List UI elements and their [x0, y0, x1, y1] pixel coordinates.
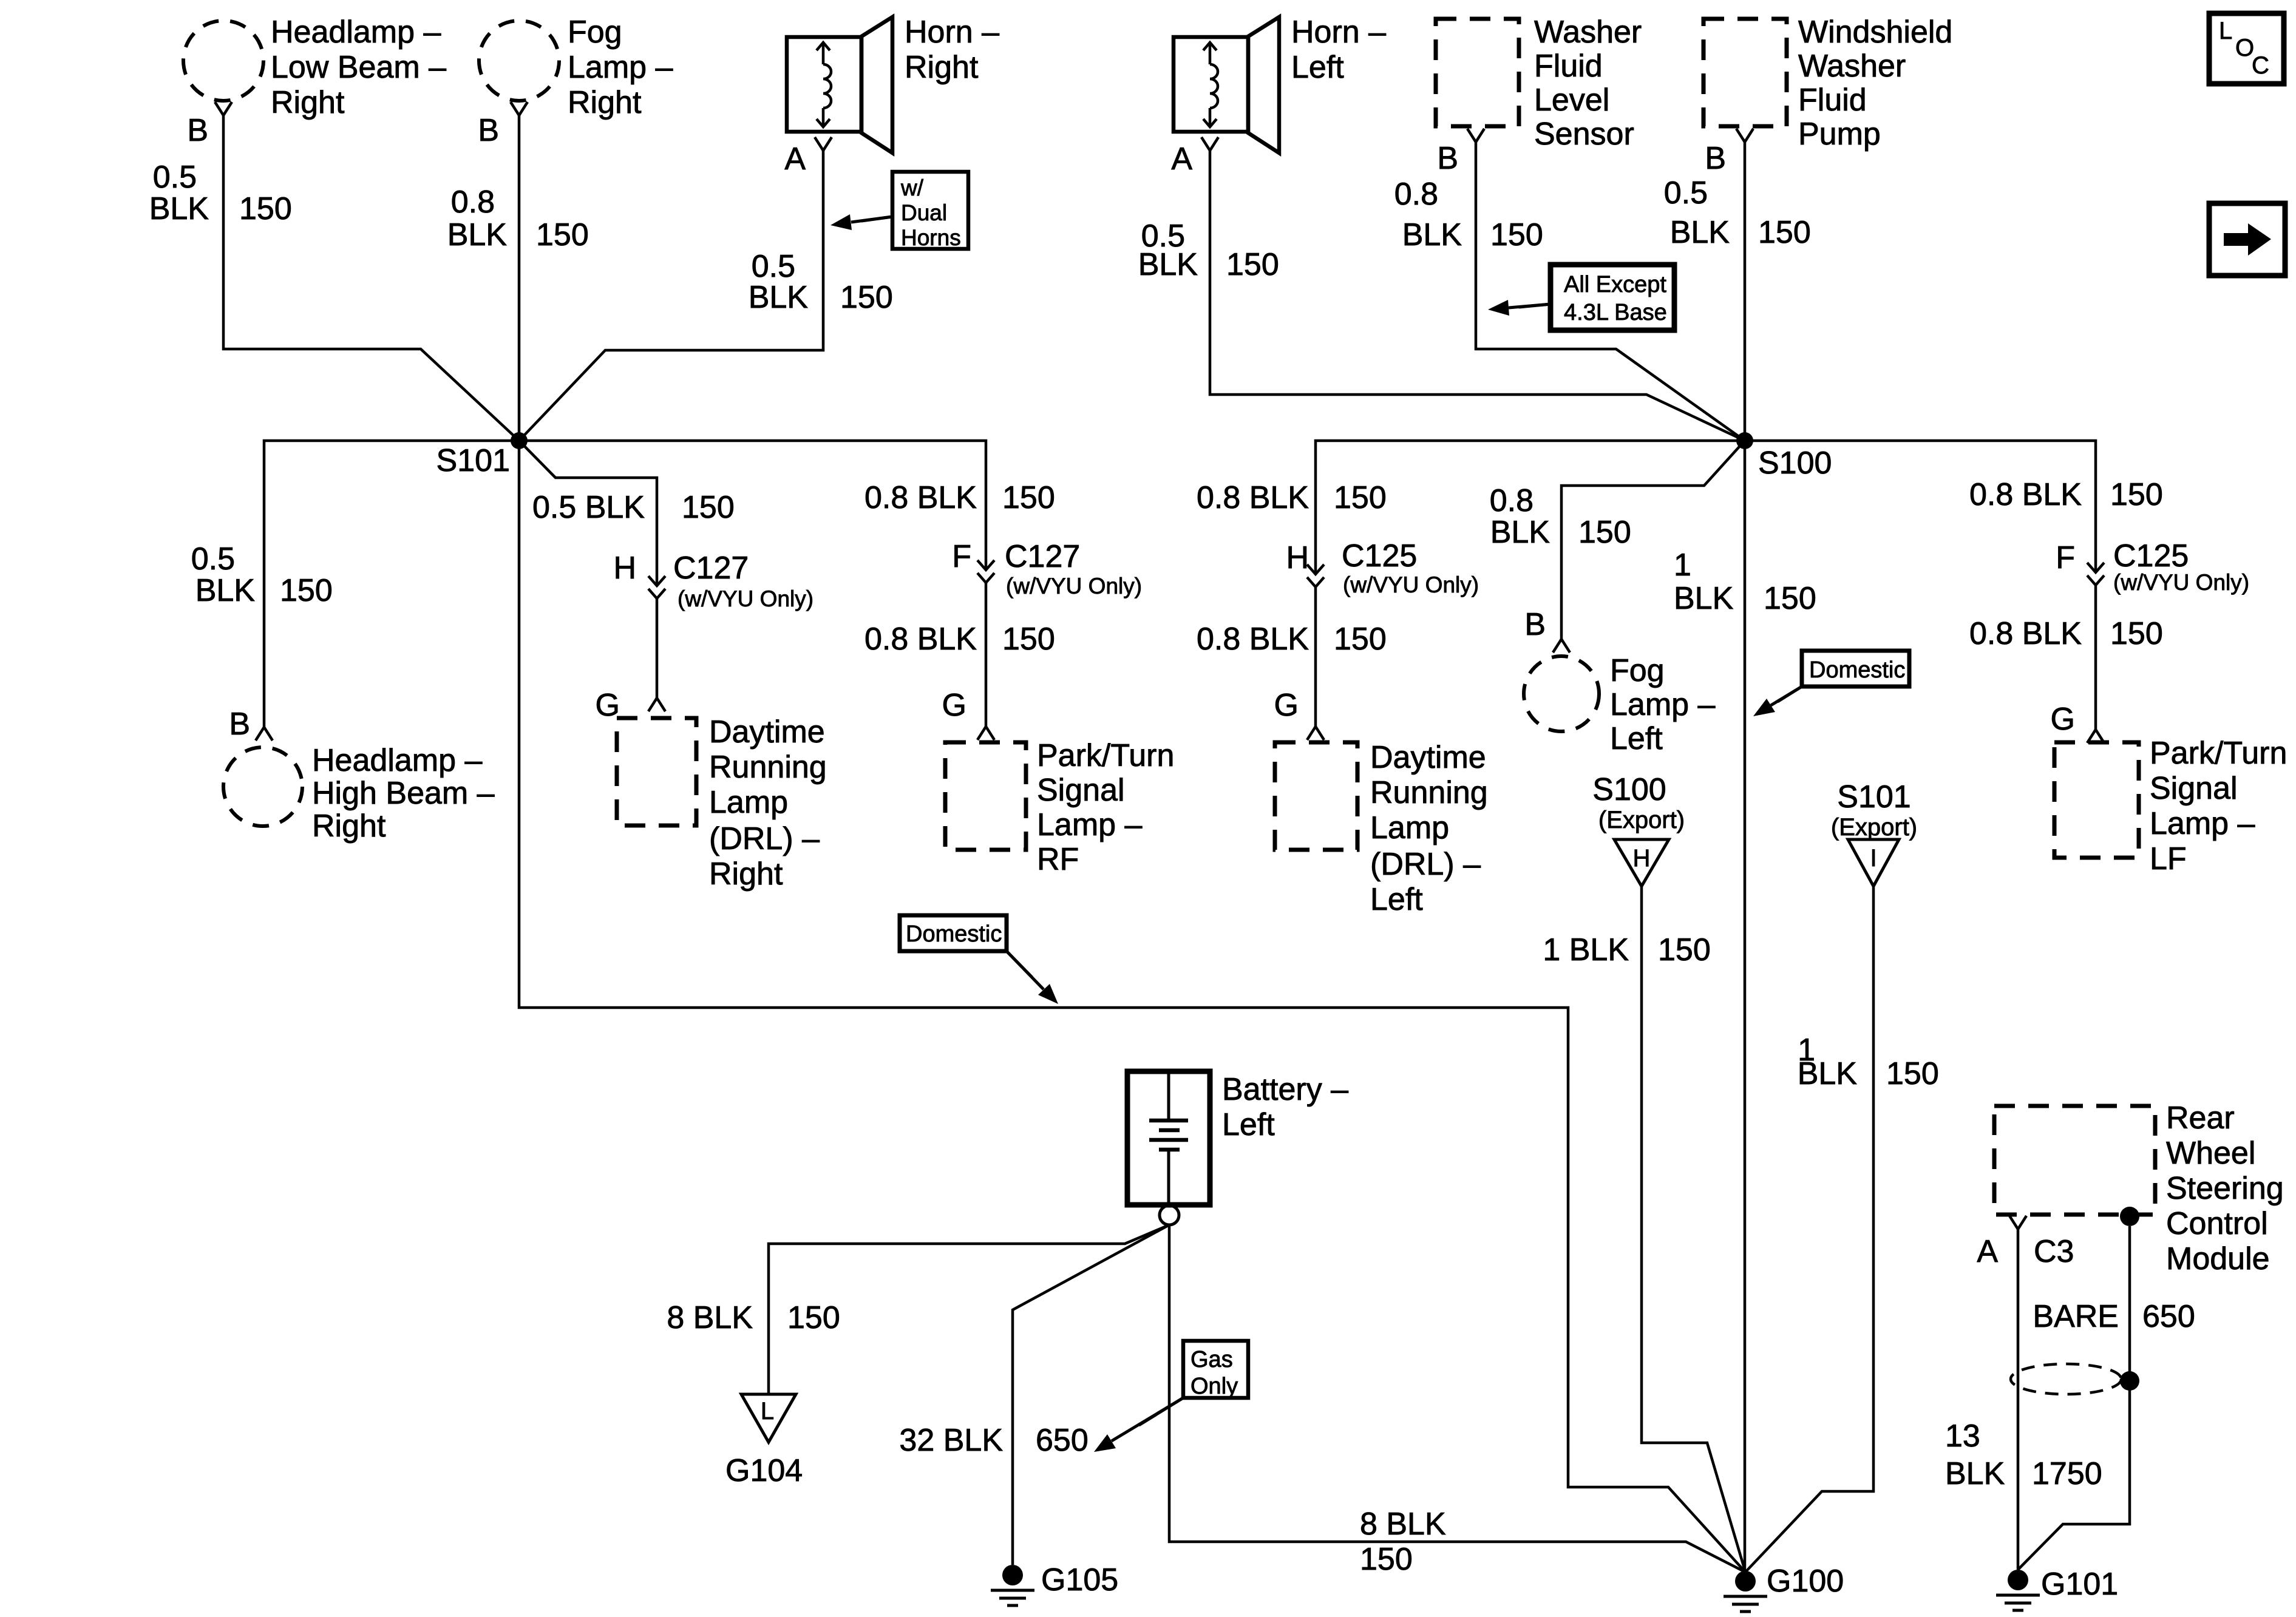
svg-text:S101: S101: [1837, 779, 1911, 815]
svg-text:A: A: [1171, 141, 1192, 177]
label Park/Turn Signal Lamp LF: [2150, 736, 2287, 876]
svg-text:LF: LF: [2150, 841, 2187, 876]
node on drain wire: [2120, 1371, 2139, 1391]
svg-text:Rear: Rear: [2166, 1100, 2235, 1136]
svg-text:Headlamp –: Headlamp –: [312, 743, 482, 778]
svg-text:650: 650: [1036, 1423, 1089, 1458]
wire S100 to fog lamp left: [1561, 441, 1745, 639]
svg-text:(w/VYU Only): (w/VYU Only): [2113, 570, 2249, 595]
svg-text:Control: Control: [2166, 1206, 2268, 1241]
svg-text:Gas: Gas: [1190, 1347, 1233, 1372]
svg-text:Dual: Dual: [901, 200, 947, 225]
pin label B: [478, 113, 499, 148]
fog lamp right lamp: [479, 21, 559, 101]
note (w/VYU Only): [2113, 570, 2249, 595]
pin label G: [596, 688, 620, 723]
svg-text:Right: Right: [271, 85, 345, 120]
label Daytime Running Lamp DRL Right: [709, 714, 827, 892]
note (w/VYU Only): [1006, 574, 1142, 598]
connector pin G of DRL right: [648, 698, 665, 711]
svg-text:150: 150: [1226, 247, 1279, 282]
ground G105: [991, 1565, 1034, 1605]
wire label 32 BLK 650: [899, 1423, 1088, 1458]
svg-text:H: H: [613, 551, 636, 586]
label G100: [1767, 1564, 1844, 1599]
svg-text:150: 150: [1490, 217, 1543, 253]
connector C125 pin H: [1307, 564, 1324, 587]
svg-text:(w/VYU Only): (w/VYU Only): [1343, 572, 1479, 597]
note box Domestic: [900, 915, 1007, 951]
svg-text:Running: Running: [709, 750, 827, 785]
svg-text:H: H: [1286, 540, 1309, 575]
connector C127 pin H: [648, 576, 665, 598]
svg-text:1 BLK: 1 BLK: [1543, 932, 1629, 968]
connector pin G of park/turn LF: [2087, 730, 2104, 743]
svg-text:(w/VYU Only): (w/VYU Only): [1006, 574, 1142, 598]
connector pin G of DRL left: [1307, 727, 1324, 740]
svg-text:Horn –: Horn –: [905, 15, 999, 50]
pin label H: [1286, 540, 1309, 575]
wire label 0.8 BLK 150: [1969, 477, 2163, 512]
svg-text:13: 13: [1945, 1419, 1980, 1454]
svg-text:(DRL) –: (DRL) –: [1370, 847, 1481, 882]
svg-text:150: 150: [682, 490, 735, 525]
wire washer pump to S100: [1744, 142, 1747, 441]
svg-text:A: A: [784, 141, 806, 177]
svg-text:Left: Left: [1222, 1107, 1275, 1142]
svg-text:G100: G100: [1767, 1564, 1844, 1599]
svg-text:Steering: Steering: [2166, 1171, 2284, 1206]
svg-text:F: F: [952, 539, 971, 574]
svg-text:Lamp –: Lamp –: [1610, 687, 1716, 722]
pin label A: [784, 141, 806, 177]
connector pin B of fog lamp right: [511, 102, 528, 115]
svg-text:150: 150: [1002, 480, 1055, 515]
pin label G: [1274, 688, 1299, 723]
svg-text:C3: C3: [2034, 1234, 2074, 1269]
svg-text:(Export): (Export): [1598, 807, 1685, 833]
svg-text:B: B: [1705, 141, 1726, 176]
pin label B: [229, 707, 250, 742]
svg-text:0.8 BLK: 0.8 BLK: [864, 622, 977, 657]
connector C125 pin F: [2087, 563, 2104, 585]
label Park/Turn Signal Lamp RF: [1037, 738, 1174, 877]
svg-text:C127: C127: [673, 551, 749, 586]
svg-text:H: H: [1633, 845, 1651, 872]
svg-text:S101: S101: [436, 443, 510, 478]
wire label 0.5 BLK 150: [149, 160, 292, 226]
wire label 0.8 BLK 150: [1197, 480, 1387, 515]
fog lamp left lamp: [1524, 656, 1599, 731]
svg-text:150: 150: [239, 191, 292, 226]
svg-text:650: 650: [2142, 1299, 2195, 1334]
svg-text:B: B: [1524, 607, 1546, 642]
headlamp high-beam right lamp: [223, 747, 302, 826]
svg-text:G: G: [2051, 702, 2075, 737]
svg-text:150: 150: [1886, 1056, 1939, 1091]
svg-text:Right: Right: [709, 856, 783, 892]
daytime running lamp DRL right: [617, 718, 696, 825]
svg-text:BLK: BLK: [447, 217, 508, 253]
svg-text:BLK: BLK: [1674, 581, 1734, 616]
wire label 8 BLK 150: [1360, 1507, 1446, 1577]
wire label 0.8 BLK 150: [1490, 483, 1631, 550]
svg-text:All Except: All Except: [1564, 272, 1666, 297]
svg-text:Signal: Signal: [1037, 773, 1125, 808]
splice S100: [1736, 432, 1753, 449]
wire label 0.8 BLK 150: [447, 185, 589, 253]
ground G101: [1996, 1570, 2040, 1610]
svg-text:C: C: [2252, 52, 2269, 79]
washer fluid level sensor: [1436, 19, 1519, 126]
connector pin A of horn right: [815, 137, 832, 151]
headlamp low-beam right lamp: [183, 21, 263, 101]
arrow from w/ Dual Horns box to horn wire: [830, 214, 892, 230]
svg-text:B: B: [187, 113, 208, 148]
svg-text:RF: RF: [1037, 842, 1079, 877]
pin label B: [1437, 141, 1458, 176]
svg-text:0.5: 0.5: [191, 541, 235, 577]
svg-text:150: 150: [2110, 477, 2163, 512]
connector pin B of fog lamp left: [1553, 639, 1570, 653]
connector pin B of washer fluid pump: [1736, 129, 1753, 142]
svg-text:G: G: [596, 688, 620, 723]
drain wire to G101: [2018, 1226, 2130, 1570]
label Fog Lamp Left: [1610, 653, 1716, 756]
connector pin A of horn left: [1201, 137, 1218, 151]
note box All Except 4.3L Base: [1550, 265, 1674, 330]
svg-text:F: F: [2056, 540, 2075, 575]
pin label H: [613, 551, 636, 586]
wire fog lamp right to S101: [518, 115, 521, 441]
svg-text:C125: C125: [2113, 538, 2189, 574]
svg-text:Fog: Fog: [568, 15, 622, 50]
svg-text:G105: G105: [1041, 1562, 1118, 1598]
svg-text:150: 150: [1758, 215, 1811, 250]
wire label 1 BLK 150: [1674, 547, 1816, 616]
svg-text:Lamp –: Lamp –: [568, 50, 673, 85]
svg-text:High Beam –: High Beam –: [312, 776, 495, 811]
svg-text:0.8: 0.8: [1394, 177, 1438, 212]
splice S100 Export triangle H: [1614, 839, 1669, 886]
svg-text:Right: Right: [905, 50, 979, 85]
svg-text:150: 150: [280, 573, 333, 608]
svg-text:0.5 BLK: 0.5 BLK: [532, 490, 645, 525]
wire headlamp low-beam to S101: [223, 115, 519, 441]
wire label 0.5 BLK 150: [1138, 219, 1279, 282]
wire label 0.8 BLK 150: [1969, 616, 2163, 651]
svg-text:150: 150: [1658, 932, 1711, 968]
wire C125-H to DRL left: [1314, 587, 1317, 727]
wire label 0.8 BLK 150: [1394, 177, 1543, 253]
svg-text:Signal: Signal: [2150, 771, 2238, 806]
pin label B: [1705, 141, 1726, 176]
svg-text:150: 150: [536, 217, 589, 253]
park/turn signal lamp RF: [945, 742, 1026, 850]
svg-text:150: 150: [787, 1300, 840, 1335]
svg-text:BLK: BLK: [1670, 215, 1730, 250]
svg-text:S100: S100: [1758, 446, 1832, 481]
svg-text:BLK: BLK: [1138, 247, 1198, 282]
note (w/VYU Only): [678, 586, 813, 611]
svg-text:Sensor: Sensor: [1534, 117, 1634, 152]
label G105: [1041, 1562, 1118, 1598]
wire horn left to S100: [1210, 151, 1745, 441]
arrow from Domestic box to wire: [1007, 951, 1058, 1004]
wire label 0.8 BLK 150: [864, 622, 1055, 657]
ground G100: [1724, 1571, 1767, 1612]
svg-text:0.5: 0.5: [153, 160, 197, 195]
wire label 1 BLK 150: [1543, 932, 1710, 968]
svg-text:0.8 BLK: 0.8 BLK: [1969, 616, 2082, 651]
wire C125-F to park/turn LF: [2094, 585, 2097, 730]
battery terminal node: [1160, 1205, 1179, 1225]
svg-text:B: B: [478, 113, 499, 148]
wire label 8 BLK 150: [667, 1300, 840, 1335]
label Battery Left: [1222, 1072, 1348, 1142]
svg-text:C127: C127: [1005, 539, 1080, 574]
note box Domestic: [1802, 651, 1909, 686]
label S101: [436, 443, 510, 478]
svg-text:Running: Running: [1370, 775, 1488, 810]
wire label 0.5 BLK 150: [532, 490, 735, 525]
svg-text:L: L: [761, 1398, 774, 1425]
svg-text:Right: Right: [568, 85, 642, 120]
svg-text:Module: Module: [2166, 1241, 2270, 1276]
svg-text:Level: Level: [1534, 83, 1609, 118]
svg-text:Park/Turn: Park/Turn: [2150, 736, 2287, 771]
note box w/ Dual Horns: [892, 172, 968, 250]
wire battery to G100: [1169, 1225, 1745, 1572]
svg-text:Right: Right: [312, 808, 386, 844]
wire module pin A to G101: [2017, 1229, 2020, 1570]
wire S100 to connector C125-F: [1745, 441, 2096, 572]
connector label C125: [2113, 538, 2189, 574]
wire battery to G105: [1013, 1225, 1169, 1565]
shield ellipse: [2011, 1364, 2121, 1394]
wire C127-F to park/turn RF: [985, 583, 988, 727]
svg-text:(w/VYU Only): (w/VYU Only): [678, 586, 813, 611]
windshield washer fluid pump: [1703, 19, 1787, 126]
wire S101 to headlamp high-beam right: [264, 441, 519, 727]
battery left: [1127, 1071, 1210, 1205]
label G104: [725, 1453, 803, 1488]
label Rear Wheel Steering Control Module: [2166, 1100, 2284, 1276]
svg-text:B: B: [229, 707, 250, 742]
connector pin B of headlamp low-beam right: [215, 102, 232, 115]
pin label B: [187, 113, 208, 148]
park/turn signal lamp LF: [2054, 742, 2139, 858]
svg-text:Lamp: Lamp: [709, 785, 788, 820]
pin label G: [942, 688, 966, 723]
label Fog Lamp Right: [568, 15, 673, 120]
svg-text:Lamp: Lamp: [1370, 810, 1449, 846]
wire S101 domestic branch to G100: [519, 441, 1745, 1572]
svg-text:Battery –: Battery –: [1222, 1072, 1348, 1107]
svg-text:(DRL) –: (DRL) –: [709, 821, 820, 856]
svg-text:Horns: Horns: [901, 225, 961, 250]
svg-text:0.8 BLK: 0.8 BLK: [864, 480, 977, 515]
label Horn Left: [1291, 15, 1386, 85]
svg-text:Washer: Washer: [1534, 15, 1642, 50]
svg-text:G101: G101: [2041, 1567, 2118, 1602]
svg-text:150: 150: [1002, 622, 1055, 657]
svg-text:Lamp –: Lamp –: [2150, 806, 2255, 841]
label S100 (Export): [1592, 772, 1685, 833]
connector label C3: [2034, 1234, 2074, 1269]
svg-text:G: G: [942, 688, 966, 723]
label S100: [1758, 446, 1832, 481]
svg-text:w/: w/: [900, 175, 924, 200]
svg-text:BLK: BLK: [1798, 1056, 1858, 1091]
rear wheel steering control module: [1994, 1106, 2155, 1215]
svg-text:Headlamp –: Headlamp –: [271, 15, 441, 50]
svg-text:150: 150: [840, 280, 893, 315]
svg-text:32 BLK: 32 BLK: [899, 1423, 1003, 1458]
svg-text:Washer: Washer: [1798, 49, 1906, 84]
horn right: [787, 17, 892, 153]
svg-text:BARE: BARE: [2033, 1299, 2119, 1334]
wire battery to G104: [769, 1225, 1169, 1394]
wire C127-H to DRL right: [656, 598, 659, 698]
svg-text:G: G: [1274, 688, 1299, 723]
svg-text:A: A: [1977, 1234, 1998, 1269]
svg-text:Fluid: Fluid: [1798, 83, 1867, 118]
connector label C127: [1005, 539, 1080, 574]
svg-text:B: B: [1437, 141, 1458, 176]
horn left: [1173, 17, 1279, 153]
connector pin G of park/turn RF: [977, 727, 994, 740]
svg-text:Left: Left: [1370, 882, 1423, 917]
svg-text:S100: S100: [1592, 772, 1666, 807]
connector pin B of washer fluid level sensor: [1467, 129, 1484, 142]
wire washer sensor to S100: [1476, 142, 1745, 441]
arrow from All Except box to washer wire: [1488, 300, 1550, 316]
svg-text:Daytime: Daytime: [1370, 740, 1486, 775]
pin label A: [1977, 1234, 1998, 1269]
label Headlamp High Beam Right: [312, 743, 495, 844]
svg-text:L: L: [2219, 18, 2232, 44]
note (w/VYU Only): [1343, 572, 1479, 597]
pin label B: [1524, 607, 1546, 642]
svg-text:BLK: BLK: [149, 191, 209, 226]
pin label F: [2056, 540, 2075, 575]
svg-text:C125: C125: [1342, 538, 1417, 574]
svg-text:8 BLK: 8 BLK: [1360, 1507, 1446, 1542]
wire S100 down to G100: [1744, 441, 1747, 1572]
svg-text:Wheel: Wheel: [2166, 1136, 2255, 1171]
splice S101 Export triangle I: [1848, 839, 1899, 886]
label Daytime Running Lamp DRL Left: [1370, 740, 1488, 917]
svg-text:BLK: BLK: [195, 573, 256, 608]
svg-text:Lamp –: Lamp –: [1037, 807, 1143, 842]
wire S101 to connector C127-F: [519, 441, 986, 570]
node on module bottom edge: [2120, 1207, 2139, 1226]
arrow from Domestic box to wire: [1753, 686, 1802, 716]
svg-text:Pump: Pump: [1798, 117, 1881, 152]
svg-text:150: 150: [2110, 616, 2163, 651]
svg-text:Left: Left: [1291, 50, 1344, 85]
svg-text:0.8 BLK: 0.8 BLK: [1197, 480, 1309, 515]
svg-text:150: 150: [1334, 480, 1387, 515]
svg-text:Only: Only: [1190, 1374, 1238, 1399]
svg-text:0.8 BLK: 0.8 BLK: [1969, 477, 2082, 512]
svg-text:Low Beam –: Low Beam –: [271, 50, 446, 85]
svg-text:0.8: 0.8: [1490, 483, 1533, 518]
svg-text:BLK: BLK: [1402, 217, 1462, 253]
svg-text:Windshield: Windshield: [1798, 15, 1952, 50]
connector label C127: [673, 551, 749, 586]
wire label 13 BLK 1750: [1945, 1419, 2102, 1491]
label S101 (Export): [1831, 779, 1917, 841]
wire label 0.5 BLK 150: [191, 541, 333, 608]
connector C127 pin F: [977, 560, 994, 583]
svg-text:Park/Turn: Park/Turn: [1037, 738, 1174, 773]
svg-text:0.5: 0.5: [1664, 175, 1708, 211]
svg-text:Horn –: Horn –: [1291, 15, 1386, 50]
svg-text:Domestic: Domestic: [906, 921, 1002, 947]
svg-text:Fog: Fog: [1610, 653, 1665, 688]
label Headlamp Low Beam Right: [271, 15, 446, 120]
wire S101 to connector C127-H: [519, 441, 657, 586]
svg-text:1750: 1750: [2032, 1456, 2102, 1491]
label Washer Fluid Level Sensor: [1534, 15, 1642, 152]
svg-text:I: I: [1870, 845, 1877, 872]
wire S100 Export to G100: [1642, 886, 1745, 1572]
splice S101: [511, 432, 528, 449]
svg-text:4.3L Base: 4.3L Base: [1564, 300, 1667, 325]
wire label 0.5 BLK 150: [1664, 175, 1811, 250]
svg-text:150: 150: [1578, 515, 1631, 550]
wire horn right to S101: [519, 151, 823, 441]
svg-text:8 BLK: 8 BLK: [667, 1300, 753, 1335]
svg-text:1: 1: [1674, 547, 1691, 583]
ground G104 triangle L: [741, 1394, 796, 1442]
svg-text:BLK: BLK: [1945, 1456, 2005, 1491]
pin label F: [952, 539, 971, 574]
svg-text:150: 150: [1360, 1542, 1413, 1577]
svg-text:Domestic: Domestic: [1809, 657, 1905, 683]
svg-text:150: 150: [1334, 622, 1387, 657]
next-page arrow box: [2209, 203, 2285, 276]
wire label BARE 650: [2033, 1299, 2195, 1334]
label Windshield Washer Fluid Pump: [1798, 15, 1952, 152]
label Horn Right: [905, 15, 999, 85]
wire label 1 BLK 150: [1798, 1032, 1939, 1091]
arrow from Gas Only box to wire: [1094, 1398, 1183, 1452]
svg-text:Fluid: Fluid: [1534, 49, 1603, 84]
label G101: [2041, 1567, 2118, 1602]
svg-text:BLK: BLK: [1490, 515, 1550, 550]
svg-text:G104: G104: [725, 1453, 803, 1488]
wire label 0.8 BLK 150: [1197, 622, 1387, 657]
svg-text:Left: Left: [1610, 721, 1663, 756]
pin label A: [1171, 141, 1192, 177]
connector pin B of headlamp high-beam right: [256, 727, 273, 741]
svg-text:0.5: 0.5: [752, 249, 795, 284]
wire label 0.8 BLK 150: [864, 480, 1055, 515]
connector pin A C3: [2009, 1216, 2026, 1229]
wire S101 Export to G100: [1745, 886, 1873, 1572]
wire S100 to connector C125-H: [1316, 441, 1745, 574]
svg-text:0.8: 0.8: [451, 185, 495, 220]
svg-text:150: 150: [1764, 581, 1816, 616]
svg-text:(Export): (Export): [1831, 814, 1917, 841]
wire label 0.5 BLK 150: [749, 249, 893, 315]
note box Gas Only: [1183, 1341, 1248, 1399]
pin label G: [2051, 702, 2075, 737]
daytime running lamp DRL left: [1275, 742, 1357, 850]
